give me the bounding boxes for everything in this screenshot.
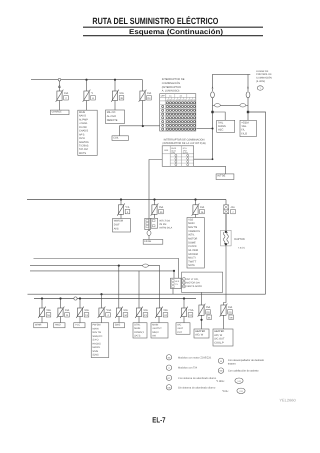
wire fuse FB to relay bbox=[154, 214, 156, 218]
wire bus2 to fuse FC bbox=[195, 200, 197, 205]
svg-text:I'M KM: I'M KM bbox=[159, 223, 166, 226]
svg-text:A/D, W: A/D, W bbox=[214, 334, 223, 337]
wire busB to fuse bbox=[79, 299, 81, 309]
node bus2 at fuse FC bbox=[194, 198, 196, 200]
svg-text:TW'ITT: TW'ITT bbox=[188, 260, 197, 263]
svg-text:COMBINACIÓN: COMBINACIÓN bbox=[162, 81, 180, 85]
svg-text:Modelos con T/A: Modelos con T/A bbox=[178, 367, 197, 370]
wire bus2 end to circuit breaker bbox=[225, 200, 227, 205]
legend item DB bbox=[166, 385, 171, 390]
wire node B to right riser bbox=[248, 112, 266, 294]
svg-text:10A: 10A bbox=[64, 92, 69, 95]
svg-text:MOTOR DH: MOTOR DH bbox=[186, 282, 199, 285]
box V bbox=[171, 278, 182, 288]
svg-text:AV'IA: AV'IA bbox=[79, 137, 85, 140]
wire A vertical bbox=[212, 98, 214, 159]
svg-text:VSSMAYS: VSSMAYS bbox=[188, 230, 200, 233]
svg-text:AN': AN' bbox=[152, 335, 156, 338]
notes box with symbols bbox=[182, 272, 223, 292]
svg-text:S/C OUT: S/C OUT bbox=[214, 338, 225, 341]
HEATED loads box bbox=[213, 329, 233, 346]
relay terminal box right bbox=[151, 218, 158, 228]
MAIN +EAT loads box bbox=[151, 323, 168, 338]
PW'SM loads list box bbox=[91, 323, 109, 358]
connector circle on bus 1 at fuse F1 bbox=[58, 78, 61, 81]
svg-text:HEC: HEC bbox=[218, 129, 224, 132]
svg-text:COOL,P: COOL,P bbox=[214, 342, 224, 345]
fuse FB 15A bbox=[152, 205, 157, 215]
MIL.CO loads box bbox=[106, 110, 125, 124]
MAIN loads list box bbox=[78, 110, 97, 155]
title rule lower bbox=[83, 35, 263, 37]
svg-text:SGN,O'C: SGN,O'C bbox=[92, 335, 102, 338]
wire W2 middle bbox=[30, 265, 143, 267]
svg-text:AVS: AVS bbox=[114, 228, 119, 231]
svg-text:Esquema (Continuación): Esquema (Continuación) bbox=[129, 28, 223, 36]
wire W3 node to box V bbox=[173, 271, 175, 278]
svg-text:CLOCK: CLOCK bbox=[188, 245, 197, 248]
svg-text:DOME: DOME bbox=[188, 241, 196, 244]
svg-text:M: M bbox=[220, 360, 222, 363]
inline connector pill right bbox=[240, 104, 246, 107]
fuse FA 7.5A bbox=[118, 205, 123, 215]
title rule upper bbox=[83, 26, 263, 28]
svg-text:+EAT'UT: +EAT'UT bbox=[152, 327, 162, 330]
svg-text:T/C'BAS: T/C'BAS bbox=[79, 144, 89, 147]
svg-text:MAV TB: MAV TB bbox=[188, 226, 197, 229]
legend item a bbox=[166, 365, 171, 370]
svg-text:10A: 10A bbox=[143, 309, 148, 312]
wire busB to fuse bbox=[60, 299, 62, 309]
fuse G row x119 bbox=[116, 308, 121, 317]
bus wire 1 bbox=[31, 79, 143, 81]
wire B vertical bbox=[247, 98, 249, 121]
SWS load box bbox=[114, 323, 125, 328]
svg-text:SGM'OS: SGM'OS bbox=[79, 141, 89, 144]
wire bus1 to fuse F2 bbox=[86, 80, 88, 91]
svg-text:15A: 15A bbox=[46, 309, 51, 312]
svg-text:1PM: 1PM bbox=[171, 151, 175, 154]
svg-text:10A: 10A bbox=[65, 309, 70, 312]
connector oval on feed-through bbox=[147, 231, 151, 236]
fuse G row x184 bbox=[181, 308, 186, 317]
wire table2 to INT'DE box bbox=[194, 166, 226, 174]
svg-text:MULT I: MULT I bbox=[188, 257, 196, 260]
wire busB to fuse bbox=[41, 299, 43, 309]
svg-text:MOTOR: MOTOR bbox=[188, 237, 197, 240]
svg-text:RUTA DEL SUMINISTRO ELÉCTRICO: RUTA DEL SUMINISTRO ELÉCTRICO bbox=[92, 16, 218, 26]
svg-text:HACKS: HACKS bbox=[92, 342, 101, 345]
connector oval on wire B bbox=[246, 92, 250, 98]
svg-text:7.5 (A): 7.5 (A) bbox=[238, 247, 245, 250]
svg-text:10A: 10A bbox=[200, 206, 205, 209]
svg-text:7.5A: 7.5A bbox=[188, 309, 194, 312]
node on bus 1 at fuse F2 bbox=[85, 79, 87, 81]
svg-text:SATS: SATS bbox=[134, 335, 141, 338]
svg-text:RUPTOR: RUPTOR bbox=[234, 238, 245, 241]
svg-text:S'A'O: S'A'O bbox=[92, 339, 98, 342]
svg-text:YEL2660: YEL2660 bbox=[279, 398, 295, 402]
node bus2 at fuse FA bbox=[120, 198, 122, 200]
svg-text:trasero: trasero bbox=[228, 363, 237, 366]
svg-text:EL-7: EL-7 bbox=[152, 416, 165, 425]
svg-text:DOWN,Y: DOWN,Y bbox=[134, 331, 144, 334]
inline connector pill left bbox=[215, 104, 221, 107]
A/C CUT loads box bbox=[176, 323, 190, 335]
CHARGE load box bbox=[50, 110, 69, 115]
node busB at fuse G1 bbox=[41, 297, 43, 299]
node table2 wire at vertical A bbox=[212, 158, 214, 160]
svg-text:TA'LCM: TA'LCM bbox=[79, 148, 88, 151]
wire bus2 to fuse FB bbox=[154, 200, 156, 205]
wire box V to bus A bbox=[172, 289, 174, 295]
node table1 wire on vertical A bbox=[212, 128, 214, 130]
circuit breaker CB 40A bbox=[224, 205, 229, 214]
wire fuse FA to WW/SM box bbox=[120, 214, 122, 218]
fuse F1 10A bbox=[57, 91, 62, 101]
svg-text:(INTERRUPTOR: (INTERRUPTOR bbox=[162, 86, 181, 89]
wire fuse H1 to heater box bbox=[201, 315, 203, 329]
svg-text:*7A: *7A bbox=[125, 206, 129, 209]
svg-text:B: B bbox=[247, 87, 249, 90]
svg-text:PW'SM: PW'SM bbox=[92, 324, 100, 327]
svg-text:D'OF: D'OF bbox=[114, 224, 120, 227]
ruptor (circuit breaker device) bbox=[221, 230, 232, 246]
svg-text:AWD: AWD bbox=[55, 324, 61, 327]
wire fuse F4 down to node J1 bbox=[142, 101, 144, 127]
connector G on fuse F1 drop bbox=[59, 81, 61, 91]
wire bus1 to fuse F3 bbox=[114, 80, 116, 91]
svg-text:G: G bbox=[58, 85, 61, 89]
F/FSE connector box bbox=[143, 240, 163, 245]
svg-text:AL.CSO: AL.CSO bbox=[107, 115, 116, 118]
wire fuses to load boxes bbox=[41, 317, 43, 323]
svg-text:INT LT DO: INT LT DO bbox=[159, 220, 170, 223]
svg-text:CUT: CUT bbox=[177, 331, 182, 334]
svg-text:INT'DE: INT'DE bbox=[217, 175, 225, 178]
fuse G row x101.5 bbox=[99, 308, 104, 317]
wire fuse F1 to CHARGE bbox=[59, 101, 61, 111]
svg-text:AP'S: AP'S bbox=[79, 133, 85, 136]
svg-text:I+LC: I+LC bbox=[75, 324, 80, 327]
svg-text:Con sistema de alumbrado diurn: Con sistema de alumbrado diurno bbox=[178, 377, 217, 380]
wire busA to fuse G4 bbox=[101, 294, 103, 308]
node busB at fuse G8 bbox=[183, 297, 185, 299]
fuse G row x80 bbox=[77, 308, 82, 317]
svg-text:15A: 15A bbox=[206, 306, 211, 309]
node W2 to fuse G5 bbox=[118, 265, 120, 267]
wire ruptor down to fuse row bbox=[225, 214, 227, 231]
svg-text:HEATER: HEATER bbox=[195, 330, 205, 333]
fuse G row x42 bbox=[39, 308, 44, 317]
node busA at fuse G4 bbox=[100, 293, 102, 295]
combination switch table 2 bbox=[162, 146, 194, 167]
wire table2 left to F/FSE feed-through across bus 2 bbox=[149, 160, 162, 231]
svg-text:SR DEM: SR DEM bbox=[188, 253, 198, 256]
svg-text:CHARGE: CHARGE bbox=[52, 110, 63, 113]
combination switch table 1 grid bbox=[160, 94, 196, 131]
svg-text:INTERRUPTOR DE: INTERRUPTOR DE bbox=[162, 78, 185, 81]
fuse F4 10A bbox=[140, 91, 145, 101]
svg-text:Modelos con motor Z295/Z31: Modelos con motor Z295/Z31 bbox=[178, 356, 212, 359]
wire fuse H2 to heated box bbox=[223, 315, 225, 329]
svg-text:INT LT DO,: INT LT DO, bbox=[186, 278, 199, 281]
wire W2 node down to fuse G5 bbox=[118, 266, 120, 308]
wire node J1 to COIL and table1 bbox=[120, 126, 160, 136]
node on bus 1 at fuse F3 bbox=[114, 79, 116, 81]
wire bus1 to fuse F4 bbox=[142, 80, 144, 91]
fuse H1 15A bbox=[199, 305, 204, 315]
svg-text:MAIN'L: MAIN'L bbox=[92, 346, 100, 349]
+GEM TAIL load box bbox=[240, 120, 256, 136]
fuse H2 10A bbox=[221, 305, 226, 315]
svg-text:NATS: NATS bbox=[188, 264, 195, 267]
svg-text:(INTERRUPTOR DE LA LUZ INT R): (INTERRUPTOR DE LA LUZ INT R) B) bbox=[162, 142, 205, 145]
fuse G row x159 bbox=[156, 308, 161, 317]
svg-text:A/D, W: A/D, W bbox=[195, 334, 204, 337]
svg-text:ANT'M DS,A: ANT'M DS,A bbox=[159, 226, 172, 229]
svg-text:REMOTE: REMOTE bbox=[107, 119, 118, 122]
svg-text:CHAD'S: CHAD'S bbox=[79, 130, 88, 133]
svg-text:S'LOW: S'LOW bbox=[79, 126, 87, 129]
svg-text:SWS: SWS bbox=[115, 324, 121, 327]
node on wire A bbox=[211, 111, 213, 113]
link wire between A and B bbox=[213, 104, 215, 106]
svg-text:F/L: F/L bbox=[241, 129, 245, 132]
node bus2 at fuse FB bbox=[153, 198, 155, 200]
wire table1 to vertical A bbox=[197, 128, 213, 130]
svg-text:S/L DEM: S/L DEM bbox=[188, 249, 198, 252]
bracket wire to lighting control bbox=[213, 74, 251, 91]
bus wire B bbox=[34, 298, 196, 300]
wire table2 to vertical A bbox=[194, 158, 213, 160]
node under fuse H1 bbox=[200, 319, 202, 321]
TAIL R/ASS HEC load box bbox=[217, 120, 235, 132]
wire W3 to fuse G6 bbox=[138, 271, 140, 308]
WW/SM load box bbox=[113, 219, 131, 233]
svg-text:Con calefacción de asiento: Con calefacción de asiento bbox=[228, 370, 259, 373]
AWD load box bbox=[54, 323, 65, 328]
inline connector pill on W2 bbox=[143, 264, 149, 267]
svg-text:W/HR: W/HR bbox=[35, 324, 42, 327]
svg-text:F/LO: F/LO bbox=[241, 132, 247, 135]
wire node A to TAIL box bbox=[213, 112, 226, 120]
wire busB to fuse G8 bbox=[183, 299, 185, 309]
svg-text:INTERRUPTOR DE COMBINACIÓN: INTERRUPTOR DE COMBINACIÓN bbox=[164, 138, 205, 142]
svg-text:10A: 10A bbox=[228, 306, 233, 309]
svg-text:W-R: W-R bbox=[175, 280, 180, 283]
svg-text:COIL: COIL bbox=[113, 136, 119, 139]
svg-text:*1 80A :: *1 80A : bbox=[216, 380, 225, 383]
svg-text:DLFM: DLFM bbox=[183, 151, 189, 154]
svg-text:A: A bbox=[212, 87, 214, 90]
connector oval on wire A bbox=[211, 92, 215, 98]
svg-text:SIM,V: SIM,V bbox=[152, 331, 159, 334]
svg-text:MAIN: MAIN bbox=[152, 324, 158, 327]
svg-text:DT: DT bbox=[183, 278, 185, 281]
svg-text:F/FSE: F/FSE bbox=[144, 240, 151, 243]
svg-text:15A: 15A bbox=[163, 309, 168, 312]
DTRL loads box bbox=[133, 323, 147, 338]
svg-text:MAT'S: MAT'S bbox=[79, 152, 86, 155]
svg-text:TAIL: TAIL bbox=[218, 121, 224, 124]
svg-text:A/C: A/C bbox=[177, 324, 181, 327]
node busB at fuse G3 bbox=[79, 297, 81, 299]
bus wire 2 bbox=[27, 199, 226, 201]
wire fuse F3 to MIL.CO loads bbox=[114, 101, 116, 111]
svg-text:MAIN: MAIN bbox=[92, 327, 98, 330]
open connector circle on busB bbox=[74, 297, 77, 300]
svg-text:NAV TB: NAV TB bbox=[92, 331, 101, 334]
wire fuse FC to VSS loads bbox=[195, 214, 197, 217]
svg-text:MAIN: MAIN bbox=[188, 222, 194, 225]
svg-text:10A: 10A bbox=[119, 92, 124, 95]
svg-text:+EAT: +EAT bbox=[177, 327, 183, 330]
INT'DE box bbox=[216, 174, 234, 180]
bus wire A bbox=[28, 293, 266, 295]
svg-text:HEATED: HEATED bbox=[214, 330, 224, 333]
fuse F3 10A bbox=[112, 91, 117, 101]
svg-text:AL'PMP: AL'PMP bbox=[79, 118, 88, 121]
svg-text:10A: 10A bbox=[84, 309, 89, 312]
fuse F2 *1 bbox=[84, 91, 89, 101]
svg-text:10A: 10A bbox=[147, 92, 152, 95]
I+LC load box bbox=[74, 323, 85, 328]
svg-text:Sm: Sm bbox=[219, 370, 222, 373]
svg-text:INT'IL: INT'IL bbox=[188, 234, 195, 237]
svg-text:40A: 40A bbox=[231, 206, 236, 209]
svg-text:*10A :: *10A : bbox=[222, 390, 229, 393]
svg-text:(ILUPM): (ILUPM) bbox=[256, 80, 265, 83]
node on wire B bbox=[247, 111, 249, 113]
svg-text:WW/SM: WW/SM bbox=[114, 219, 123, 222]
svg-text:DTRL: DTRL bbox=[134, 324, 141, 327]
VSS loads list box bbox=[187, 218, 204, 269]
legend item Sm bbox=[218, 368, 223, 373]
svg-text:ILUMINACIÓN: ILUMINACIÓN bbox=[256, 76, 272, 80]
svg-text:Con desempañador de deshielo: Con desempañador de deshielo bbox=[228, 359, 265, 362]
svg-text:+GEM: +GEM bbox=[241, 121, 248, 124]
svg-text:MAIN: MAIN bbox=[134, 327, 140, 330]
HEATER load box bbox=[194, 329, 209, 338]
legend item SE bbox=[166, 355, 171, 360]
wire W3 lower bbox=[30, 270, 174, 272]
svg-text:PASS: PASS bbox=[171, 147, 177, 150]
svg-text:NAV'S: NAV'S bbox=[79, 115, 86, 118]
legend item DT bbox=[166, 375, 171, 380]
wire CB to ruptor bbox=[225, 214, 227, 231]
fuse G row x139 bbox=[136, 308, 141, 317]
svg-text:A. LUMINOSO): A. LUMINOSO) bbox=[162, 90, 180, 93]
svg-text:MAIN: MAIN bbox=[79, 111, 85, 114]
W/HR load box bbox=[34, 323, 48, 328]
node J1 bbox=[142, 125, 144, 127]
node busB at fuse G2 bbox=[59, 297, 61, 299]
svg-text:VENTILADOR: VENTILADOR bbox=[186, 285, 202, 288]
wire fuse F2 to MAIN loads bbox=[86, 101, 88, 111]
COIL box bbox=[112, 136, 128, 141]
svg-text:+CHAIL: +CHAIL bbox=[79, 122, 88, 125]
relay terminal box left bbox=[145, 218, 151, 229]
svg-text:MIL.CO: MIL.CO bbox=[107, 111, 116, 114]
svg-text:10A: 10A bbox=[123, 309, 128, 312]
svg-text:TAIL: TAIL bbox=[241, 125, 247, 128]
fuse FC 10A bbox=[193, 205, 198, 215]
svg-text:Sin sistema de alumbrado diurn: Sin sistema de alumbrado diurno bbox=[178, 386, 216, 389]
svg-text:VSS: VSS bbox=[188, 218, 193, 221]
svg-text:S'MS: S'MS bbox=[92, 350, 98, 353]
svg-text:R/ASS: R/ASS bbox=[218, 125, 226, 128]
svg-text:DTN: DTN bbox=[183, 147, 188, 150]
svg-text:15A: 15A bbox=[159, 206, 164, 209]
svg-text:*10A: *10A bbox=[106, 309, 112, 312]
wire notes box to fuse H1 bbox=[201, 292, 203, 305]
wire bus2 to fuse FA bbox=[120, 200, 122, 205]
fuse G row x60.5 bbox=[58, 308, 63, 317]
wire W1 upper bbox=[34, 259, 179, 279]
legend item M bbox=[218, 358, 223, 363]
svg-text:SJNS: SJNS bbox=[92, 354, 99, 357]
node W3 to relay box V bbox=[173, 270, 175, 272]
